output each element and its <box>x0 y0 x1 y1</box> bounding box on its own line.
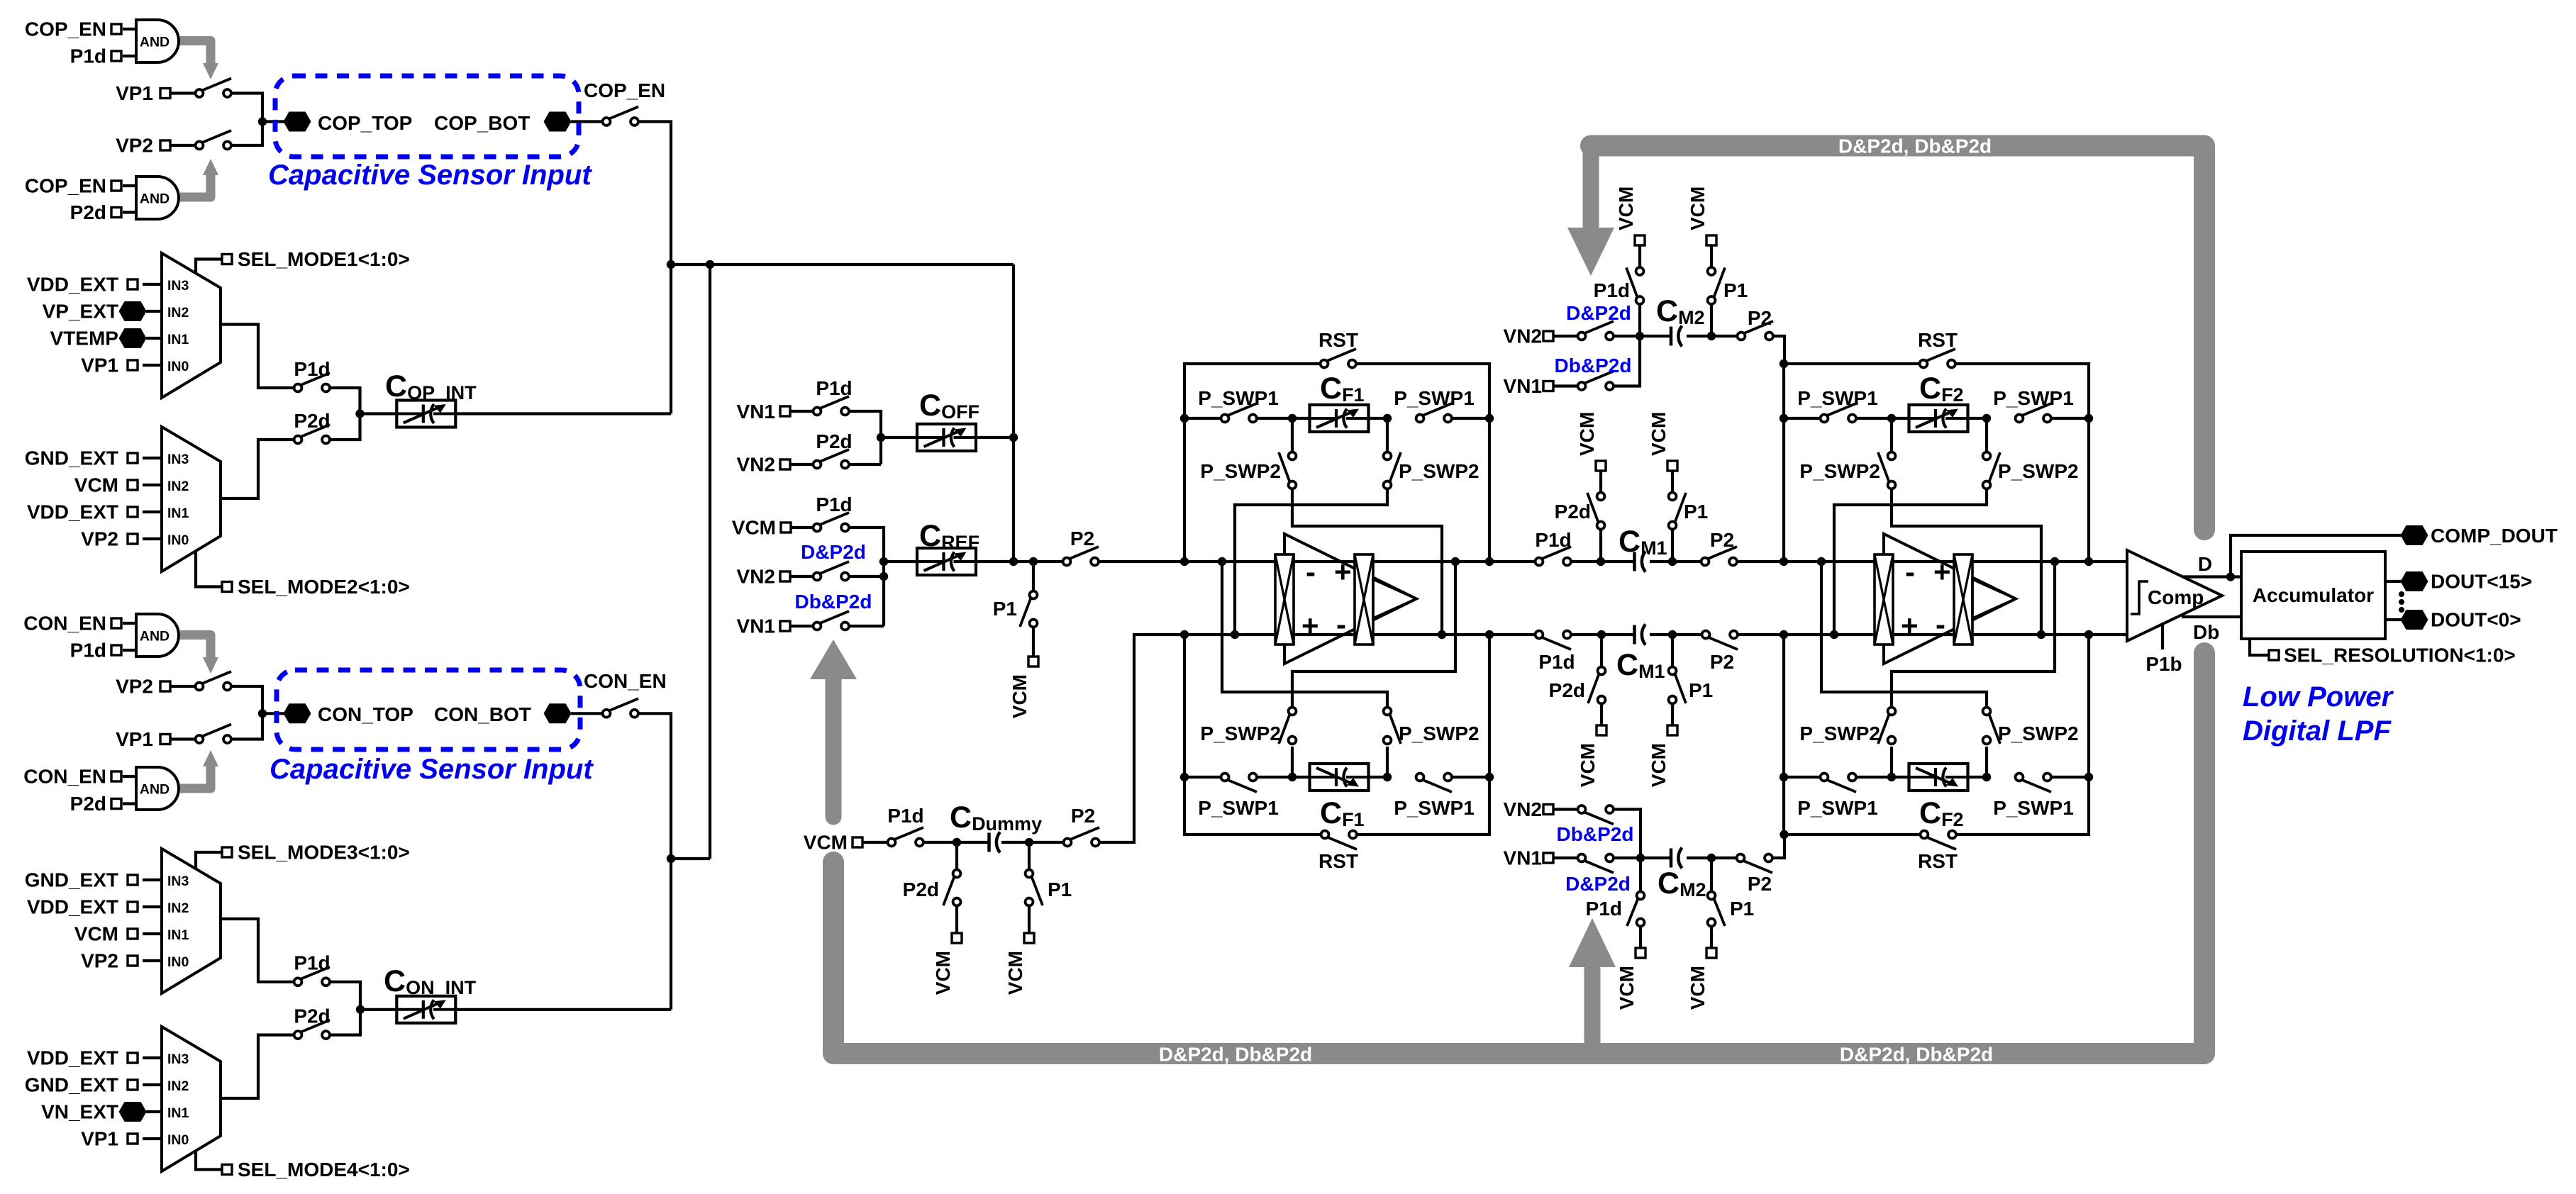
svg-text:SEL_MODE1<1:0>: SEL_MODE1<1:0> <box>238 248 410 270</box>
junction C_F2 left <box>1887 414 1896 423</box>
mux M1 (SEL_MODE1) <box>162 253 221 398</box>
wire comparator output Db <box>2182 615 2241 618</box>
junction COP column / top bus <box>667 260 675 269</box>
svg-text:P_SWP2: P_SWP2 <box>1200 722 1281 744</box>
junction C_OFF riser <box>1009 433 1018 442</box>
junction C_Dummy left <box>953 838 961 847</box>
svg-text:VN2: VN2 <box>737 454 775 476</box>
wire VP1 to switch <box>170 91 199 94</box>
capacitor C_F1 (upper) <box>1310 405 1369 432</box>
terminal P2d (U2 in B) <box>111 208 121 218</box>
wire S32 to C_M2 node <box>1610 336 1640 386</box>
mux M3 input VP2 (IN0) <box>143 959 162 962</box>
junction stage 2 out- rail/right edge <box>2084 630 2093 639</box>
terminal VN1 (C_M2 top) <box>1543 381 1553 391</box>
junction stage 1 in+ rail/left edge <box>1180 630 1189 639</box>
svg-text:VP1: VP1 <box>81 355 118 376</box>
switch S1 (VP1, P1d-controlled) <box>202 79 231 91</box>
junction stage 2 out+ rail/right edge <box>2084 557 2093 566</box>
gray feedback path (top loop D&P2d, Db&P2d) <box>1591 146 2204 530</box>
svg-text:IN1: IN1 <box>167 506 189 521</box>
switch S27 (P2d, vertical) below bottom rail <box>1600 635 1603 668</box>
svg-text:VDD_EXT: VDD_EXT <box>27 1047 118 1069</box>
svg-text:COP_TOP: COP_TOP <box>318 112 412 134</box>
pad CON_BOT <box>544 703 572 723</box>
svg-text:CON_BOT: CON_BOT <box>434 703 531 725</box>
wire DOUT<15> <box>2385 580 2403 583</box>
svg-text:VCM: VCM <box>1687 186 1709 230</box>
svg-text:CON_TOP: CON_TOP <box>318 703 413 725</box>
svg-text:P1d: P1d <box>816 377 852 399</box>
svg-text:P1: P1 <box>1723 279 1748 301</box>
svg-text:P_SWP1: P_SWP1 <box>1797 387 1878 409</box>
switch RST (stage 1 bottom) <box>1328 837 1357 849</box>
svg-text:VN1: VN1 <box>1504 847 1542 869</box>
link wire to CON link column <box>671 857 710 860</box>
wire S8 down the CON column <box>635 713 672 1010</box>
switch P_SWP1 (stage 2 lower right) <box>2022 780 2051 792</box>
wire node A to COP_TOP pad <box>262 120 284 123</box>
svg-text:AND: AND <box>140 35 170 50</box>
wire C_Dummy to P2 switch <box>1001 841 1067 844</box>
svg-text:VCM: VCM <box>1004 951 1026 995</box>
mux M4 input GND_EXT (IN2) <box>143 1083 162 1086</box>
wire S7 to node C <box>228 713 263 739</box>
wire S5 to node B <box>326 414 360 440</box>
svg-text:Db&P2d: Db&P2d <box>1555 355 1632 376</box>
svg-text:CON_EN: CON_EN <box>23 766 106 788</box>
svg-text:Low Power: Low Power <box>2243 681 2394 713</box>
wire S23 to VCM <box>1599 471 1602 494</box>
svg-text:VCM: VCM <box>1576 412 1598 456</box>
svg-text:IN2: IN2 <box>167 479 189 494</box>
switch S32 (VN1, Db&P2d) <box>1584 372 1614 384</box>
switch S5 (P2d) <box>301 425 330 437</box>
switch S38 (P1, vertical) <box>1710 858 1713 893</box>
capacitor C_F2 (lower) <box>1909 764 1968 791</box>
svg-text:P_SWP1: P_SWP1 <box>1198 797 1279 819</box>
stage 1 lower reset loop wire <box>1184 635 1325 835</box>
wire DOUT<0> <box>2385 618 2403 621</box>
gray arrow up to VN1/VN2 switches (bottom bus) <box>826 679 842 817</box>
comparator U5 triangle <box>2127 550 2222 641</box>
switch P_SWP1 (stage 1 lower right) <box>1423 780 1452 792</box>
capacitor C_F1 (lower) <box>1310 764 1369 791</box>
switch contact overlays (redraw open contacts above wires) <box>196 89 2051 1039</box>
svg-text:VP2: VP2 <box>116 676 153 698</box>
svg-text:DOUT<0>: DOUT<0> <box>2431 609 2521 631</box>
terminal VP1 <box>160 89 170 99</box>
switch S2 (VP2, P2d-controlled) <box>202 130 231 143</box>
wire CON_BOT to switch <box>571 712 606 715</box>
svg-text:IN1: IN1 <box>167 1105 189 1121</box>
terminal P1d (U3 in B) <box>111 645 121 655</box>
terminal SEL_MODE4<1:0> <box>196 1151 223 1170</box>
stage 2 upper-right swap wire to in+ rail <box>1834 489 1987 635</box>
mux M2 (SEL_MODE2) <box>162 427 221 571</box>
svg-text:-: - <box>1936 608 1945 641</box>
svg-text:IN0: IN0 <box>167 532 189 548</box>
capacitor C_OP_INT <box>396 401 455 428</box>
switch S31 (P1d, vertical) above node <box>1638 303 1641 336</box>
wire VP2 to switch <box>170 144 199 147</box>
svg-text:+: + <box>1901 609 1919 642</box>
junction C_F1 left <box>1288 414 1297 423</box>
switch S35 (VN2, Db&P2d) <box>1584 813 1614 825</box>
svg-text:IN3: IN3 <box>167 452 189 467</box>
terminal VCM (S20) <box>952 933 962 943</box>
svg-text:VCM: VCM <box>804 832 848 854</box>
stage 1 upper feedback row wire <box>1184 417 1225 420</box>
terminal VCM (S27) <box>1597 725 1606 735</box>
svg-text:CON_EN: CON_EN <box>584 670 667 692</box>
svg-text:RST: RST <box>1918 850 1958 872</box>
wire VP1 to switch <box>170 737 199 740</box>
switch S23 (P2d, vertical) above top rail <box>1599 528 1602 562</box>
svg-text:P_SWP2: P_SWP2 <box>1998 460 2079 482</box>
switch RST (stage 2 top) <box>1926 349 1955 361</box>
switch P_SWP1 (stage 1 upper left) <box>1228 403 1257 415</box>
svg-text:RST: RST <box>1318 850 1358 872</box>
terminal VCM <box>781 523 791 532</box>
ellipsis dots <box>2399 591 2404 597</box>
svg-text:VN1: VN1 <box>1504 375 1542 397</box>
svg-text:VP2: VP2 <box>81 950 118 972</box>
switch S30 (VN2, D&P2d) <box>1584 321 1614 333</box>
mux M2 input GND_EXT (IN3) <box>143 457 162 459</box>
wire cap to right node <box>1687 857 1711 859</box>
wire S13 to C_REF node <box>845 528 884 626</box>
node C junction <box>258 709 267 718</box>
terminal SEL_MODE3<1:0> <box>196 852 223 869</box>
junction stage 2 row/right edge <box>2084 414 2093 423</box>
svg-text:D&P2d: D&P2d <box>801 541 866 563</box>
wire S15 to C_REF node <box>845 625 884 627</box>
terminal VP1 (CON) <box>160 735 170 744</box>
terminal VN2 (C_M2 top) <box>1543 331 1553 341</box>
svg-text:P1: P1 <box>1689 679 1713 701</box>
wire cap to right node <box>1687 335 1711 337</box>
svg-text:+: + <box>1301 609 1319 642</box>
wire S39 to stage 2 bottom loop <box>1769 835 1785 858</box>
svg-text:-: - <box>1306 555 1316 588</box>
svg-text:VDD_EXT: VDD_EXT <box>27 501 118 523</box>
junction C_F2 right <box>1982 414 1991 423</box>
svg-text:SEL_MODE3<1:0>: SEL_MODE3<1:0> <box>238 842 410 864</box>
svg-text:VTEMP: VTEMP <box>50 328 118 350</box>
switch P_SWP2 (stage 2 upper right, vertical) <box>1985 418 1988 456</box>
wire S18 to C_Dummy <box>920 841 989 844</box>
wire VCM to C_Dummy P1d switch <box>862 841 892 844</box>
junction stage 2 lower row/left edge <box>1780 773 1788 781</box>
switch S6 (VP2, P1d) <box>202 671 231 684</box>
terminal SEL_MODE1<1:0> <box>196 260 223 274</box>
svg-text:P1d: P1d <box>1594 279 1630 301</box>
wire VN1 to switch <box>1553 384 1582 387</box>
switch S10 (P2d) <box>301 1020 330 1032</box>
svg-text:+: + <box>1334 555 1352 588</box>
svg-text:DOUT<15>: DOUT<15> <box>2431 571 2532 593</box>
wire S10 to node D <box>326 1010 361 1035</box>
wire node C to CON_TOP pad <box>262 712 284 715</box>
svg-text:IN0: IN0 <box>167 954 189 970</box>
junction stage 1 lower row/left edge <box>1180 773 1189 781</box>
svg-text:VCM: VCM <box>1648 412 1670 456</box>
svg-text:P_SWP1: P_SWP1 <box>1797 797 1878 819</box>
gray arrow from U2 to VP2 switch <box>180 175 211 197</box>
wire VN1 to switch <box>1553 857 1582 859</box>
switch S4 (P1d) <box>301 373 330 385</box>
capacitor C_M2 (bottom) <box>1670 849 1673 868</box>
svg-text:VDD_EXT: VDD_EXT <box>27 274 118 296</box>
wire S27 to VCM <box>1600 703 1603 726</box>
junction summing node / P1 switch <box>1029 557 1038 566</box>
junction C_F1 right <box>1383 414 1392 423</box>
svg-text:D&P2d, Db&P2d: D&P2d, Db&P2d <box>1838 135 1992 157</box>
svg-text:VCM: VCM <box>74 923 118 945</box>
switch S16 (P2) to stage 1 <box>1070 547 1099 559</box>
top bus wire to C_OFF column <box>671 263 1014 266</box>
terminal VP2 (CON) <box>160 681 170 691</box>
pad COMP_DOUT <box>2401 525 2428 545</box>
junction on stage 2 top loop <box>1780 359 1788 368</box>
junction C_M2 top node <box>1636 332 1644 340</box>
svg-text:P_SWP2: P_SWP2 <box>1399 722 1479 744</box>
stage 1 upper reset loop wire <box>1184 364 1324 562</box>
terminal VCM (C_Dummy) <box>853 837 862 847</box>
wire S6 to node C <box>228 686 263 713</box>
switch S12 (VN2, P2d) <box>820 450 849 462</box>
svg-text:VDD_EXT: VDD_EXT <box>27 896 118 918</box>
wire P1b stub <box>2161 624 2164 649</box>
wire C_OP_INT to COP column <box>455 412 671 415</box>
svg-text:P2d: P2d <box>70 201 106 223</box>
svg-text:+: + <box>1933 555 1951 588</box>
svg-text:Digital LPF: Digital LPF <box>2243 715 2392 747</box>
switch P_SWP2 (stage 1 upper left, vertical) <box>1291 418 1294 456</box>
svg-text:VN_EXT: VN_EXT <box>41 1101 118 1123</box>
capacitor C_M1 (top) <box>1633 552 1636 571</box>
svg-text:P_SWP1: P_SWP1 <box>1394 797 1475 819</box>
svg-text:P_SWP2: P_SWP2 <box>1399 460 1479 482</box>
junction stage 2 row/left edge <box>1780 414 1788 423</box>
svg-text:Db: Db <box>2193 621 2219 643</box>
CON link column wire <box>709 264 711 859</box>
mux M3 input GND_EXT (IN3) <box>143 878 162 881</box>
switch S22 (P1d) on top rail <box>1542 547 1571 559</box>
stage 1 lower-left swap wire to in- rail <box>1292 562 1455 708</box>
svg-text:VCM: VCM <box>1577 743 1599 787</box>
wire C_OFF to riser <box>975 436 1014 439</box>
wire C_ON_INT to CON column <box>455 1008 671 1011</box>
svg-text:P2d: P2d <box>70 793 106 815</box>
terminal VN1 <box>780 406 790 416</box>
wire S12 to C_OFF node <box>845 463 882 466</box>
junction stage 1 out+ rail/right edge <box>1485 557 1494 566</box>
wire S16 to stage 1 input rail <box>1095 560 1185 563</box>
switch P_SWP2 (stage 2 lower right, vertical) <box>1985 747 1988 777</box>
switch P_SWP2 (stage 1 lower right, vertical) <box>1386 747 1389 777</box>
svg-text:P1d: P1d <box>1586 898 1622 920</box>
C_REF node junction <box>879 557 888 566</box>
node B junction <box>355 409 364 418</box>
junction stage 2 lower row/right edge <box>2084 773 2093 781</box>
mux M1 input VP_EXT (IN2) <box>146 310 162 313</box>
wire to C_OFF <box>881 436 918 439</box>
gray arrow up to P1d (bottom bus) <box>1584 969 1601 1048</box>
mux M2 input VCM (IN2) <box>143 484 162 486</box>
wire to COMP_DOUT pad <box>2231 535 2403 577</box>
switch S29 (P2) on bottom rail <box>1709 637 1738 649</box>
wire S20 to VCM <box>955 905 958 934</box>
svg-text:P1d: P1d <box>294 952 330 974</box>
svg-text:P1d: P1d <box>70 45 106 67</box>
svg-text:VCM: VCM <box>1648 743 1670 787</box>
junction D / COMP_DOUT <box>2226 572 2235 581</box>
junction C_M1 bottom right <box>1668 630 1677 639</box>
junction stage 1 out- rail/right edge <box>1485 630 1494 639</box>
svg-text:IN3: IN3 <box>167 1051 189 1067</box>
op-amp A1 input chopper <box>1275 554 1294 645</box>
wire VN1 to switch <box>790 625 817 627</box>
junction VN2b <box>879 572 888 581</box>
svg-text:COP_EN: COP_EN <box>25 18 106 40</box>
svg-text:VP1: VP1 <box>81 1128 118 1150</box>
switch S39 (P2) <box>1743 861 1772 873</box>
wire node to S39 <box>1711 857 1741 859</box>
svg-text:P2: P2 <box>1710 651 1734 673</box>
switch P_SWP1 (stage 1 lower left) <box>1228 780 1257 792</box>
pad COP_BOT <box>544 112 572 132</box>
terminal VCM (S28) <box>1667 725 1677 735</box>
svg-text:IN1: IN1 <box>167 927 189 943</box>
capacitor C_OFF <box>918 436 975 439</box>
gray arrow from U3 to VP2 switch <box>180 635 211 658</box>
wire S21 to VCM <box>1028 905 1031 934</box>
svg-text:RST: RST <box>1318 329 1358 351</box>
junction stage 1 row/right edge <box>1485 414 1494 423</box>
svg-text:P1d: P1d <box>294 358 330 380</box>
node A junction <box>258 117 267 125</box>
wire S2 to node A <box>228 122 263 146</box>
svg-text:P_SWP2: P_SWP2 <box>1799 722 1880 744</box>
stage 2 lower-left swap wire to in- rail <box>1892 562 2055 708</box>
svg-text:P2: P2 <box>1748 307 1772 329</box>
blue dashed box: capacitive sensor (COP) <box>275 76 579 157</box>
terminal P2d (U4 in B) <box>111 799 121 809</box>
svg-text:VCM: VCM <box>1687 966 1709 1010</box>
svg-text:P2: P2 <box>1071 805 1095 827</box>
svg-text:VN2: VN2 <box>1504 325 1542 347</box>
svg-text:P1: P1 <box>1684 501 1708 523</box>
svg-text:P1d: P1d <box>887 805 923 827</box>
mux M4 input VN_EXT (IN1) <box>146 1110 162 1113</box>
svg-text:P1d: P1d <box>70 640 106 662</box>
op-amp A2 output chopper <box>1954 554 1972 645</box>
svg-text:RST: RST <box>1918 329 1958 351</box>
pad DOUT<15> <box>2401 571 2428 591</box>
svg-text:VP1: VP1 <box>116 728 153 750</box>
capacitor C_REF <box>918 560 975 563</box>
svg-text:IN1: IN1 <box>167 332 189 347</box>
junction C_M2 top right <box>1707 332 1716 340</box>
wire mux M3 output to P1d switch <box>221 919 298 982</box>
svg-text:-: - <box>1905 555 1915 588</box>
wire VN2 to switch <box>790 575 817 578</box>
junction C_M1 top left <box>1597 557 1605 566</box>
terminal VCM (S31) <box>1635 235 1645 245</box>
wire S17 to VCM terminal <box>1032 627 1035 657</box>
switch S11 (VN1, P1d) <box>820 396 849 408</box>
mux M3 (SEL_MODE3) <box>162 849 221 993</box>
terminal CON_EN (U4 in A) <box>111 771 121 781</box>
wire S31 to VCM <box>1638 245 1641 269</box>
wire comparator output D <box>2183 575 2241 578</box>
svg-text:VCM: VCM <box>932 951 954 995</box>
AND gate U2 (COP_EN & P2d) <box>123 184 136 187</box>
svg-text:P1d: P1d <box>1535 529 1571 551</box>
svg-text:VN2: VN2 <box>1504 798 1542 820</box>
wire to C_REF <box>884 560 918 563</box>
svg-text:P2: P2 <box>1748 873 1772 895</box>
junction summing node / riser <box>1009 557 1018 566</box>
svg-text:P_SWP1: P_SWP1 <box>1394 387 1475 409</box>
switch S9 (P1d) <box>301 967 330 979</box>
wire C_REF to summing node <box>975 560 1067 563</box>
junction lower C_F2 left <box>1887 773 1896 781</box>
svg-text:P2d: P2d <box>903 878 939 900</box>
comparator clock step symbol <box>2131 581 2148 614</box>
svg-text:VCM: VCM <box>74 474 118 496</box>
mux M4 (SEL_MODE4) <box>162 1027 221 1171</box>
svg-text:VCM: VCM <box>1616 966 1638 1010</box>
C_OFF node junction <box>877 433 885 442</box>
svg-text:GND_EXT: GND_EXT <box>25 447 118 469</box>
terminal VCM (S33) <box>1706 235 1716 245</box>
wire S36 to C_M2 node <box>1610 857 1672 859</box>
mux M4 input VDD_EXT (IN3) <box>143 1056 162 1059</box>
svg-text:IN0: IN0 <box>167 1132 189 1148</box>
wire S35 to C_M2 node <box>1610 810 1641 859</box>
switch S36 (VN1, D&P2d) <box>1584 861 1614 873</box>
stage 1 upper-right swap wire to in+ rail <box>1235 489 1387 635</box>
switch S18 (P1d) <box>894 827 923 839</box>
junction lower C_F2 right <box>1982 773 1991 781</box>
svg-text:VP_EXT: VP_EXT <box>43 301 118 323</box>
svg-text:IN2: IN2 <box>167 305 189 320</box>
switch S21 (P1, vertical) on C_Dummy right <box>1028 842 1031 874</box>
mux M1 input VTEMP (IN1) <box>146 337 162 340</box>
capacitor C_ON_INT <box>396 996 455 1023</box>
svg-text:VN1: VN1 <box>737 401 775 423</box>
switch P_SWP2 (stage 2 lower left, vertical) <box>1890 747 1893 777</box>
gray arrow from U1 to VP1 switch <box>180 41 211 64</box>
svg-text:GND_EXT: GND_EXT <box>25 1074 118 1096</box>
svg-text:Capacitive Sensor Input: Capacitive Sensor Input <box>270 754 594 785</box>
wire VN2 to switch <box>1553 808 1582 810</box>
node D junction <box>356 1005 365 1014</box>
junction C_Dummy right <box>1025 838 1033 847</box>
switch S3 (COP_EN) <box>609 107 638 119</box>
svg-text:VCM: VCM <box>1009 674 1031 718</box>
svg-text:VP2: VP2 <box>81 528 118 550</box>
mux M3 input VCM (IN1) <box>143 932 162 935</box>
switch S20 (P2d, vertical) on C_Dummy left <box>955 842 958 874</box>
svg-text:P1: P1 <box>1730 898 1754 920</box>
P1 reset switch S17 (vertical) <box>1032 562 1035 595</box>
svg-text:P_SWP1: P_SWP1 <box>1198 387 1279 409</box>
svg-text:Comp: Comp <box>2148 586 2204 608</box>
